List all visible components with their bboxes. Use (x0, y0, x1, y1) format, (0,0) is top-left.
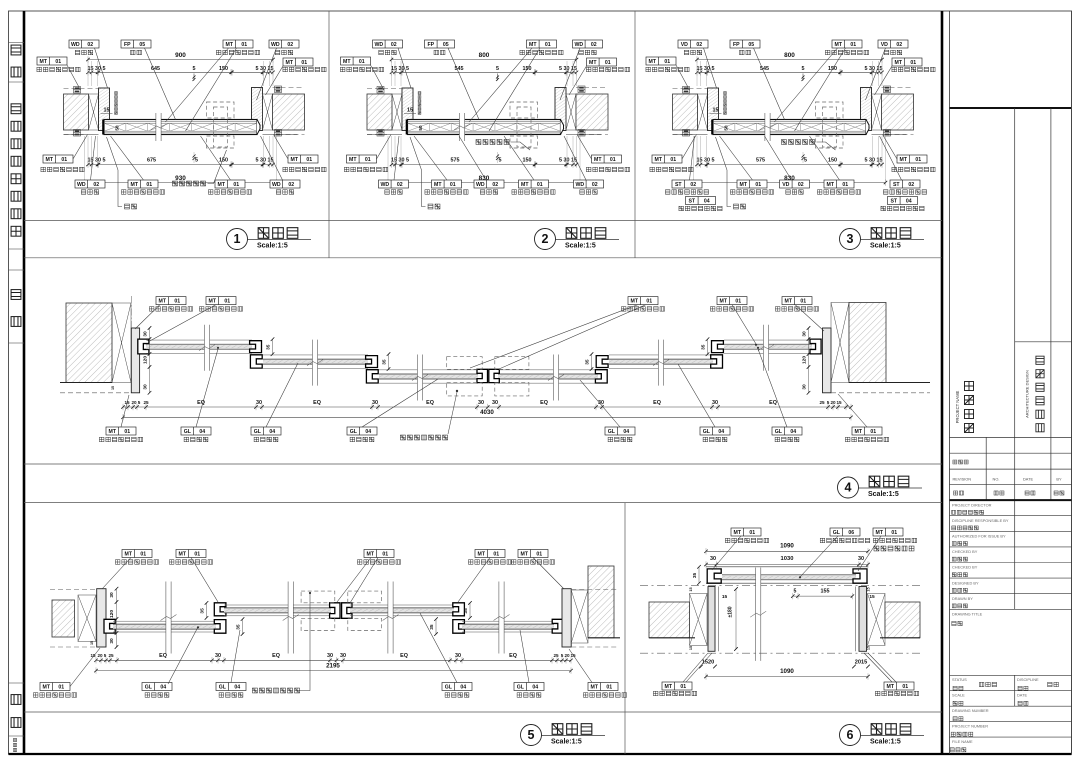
detail 3 wall edge dashed stubs (673, 88, 708, 90)
svg-text:35: 35 (692, 573, 698, 579)
svg-text:MT: MT (131, 182, 139, 188)
svg-text:120: 120 (143, 356, 149, 364)
svg-text:3: 3 (847, 232, 854, 246)
svg-text:155: 155 (821, 588, 830, 594)
svg-text:SCALE: SCALE (952, 693, 965, 698)
detail 2 door leaf hinge-side end cap (561, 120, 564, 135)
detail bubble 2 门大样 (535, 229, 556, 250)
detail 6 right wall blocking xbox (868, 594, 886, 646)
svg-text:15: 15 (90, 653, 96, 658)
detail 1 tag 古铜拉丝玫瑰金 lower-right (288, 155, 318, 163)
detail 1 door leaf hinge-side end cap (257, 120, 260, 135)
detail 4 right wall blocking xbox (831, 303, 849, 383)
svg-text:DISCIPLINE: DISCIPLINE (1017, 677, 1039, 682)
drawing frame bottom edge (9, 753, 1072, 755)
detail 4 step dims 35 (272, 339, 274, 354)
detail 4 jamb vertical dim 30 120 30 left (149, 328, 151, 393)
detail 1 tag 古铜拉丝玫瑰金 top (223, 40, 253, 48)
left strip label 合同号 (13, 738, 16, 751)
detail 2 tag row bottom 木饰面 left (379, 180, 409, 188)
svg-text:20: 20 (131, 400, 137, 405)
detail 3 right wall hatch (882, 94, 914, 130)
detail 1 right wall blocking xbox (263, 94, 273, 130)
svg-text:02: 02 (287, 42, 293, 48)
svg-text:15 30 5: 15 30 5 (391, 158, 409, 164)
detail 4 jamb vertical dim 30 120 30 right (808, 328, 810, 393)
svg-text:25: 25 (553, 653, 559, 658)
svg-text:MT: MT (343, 59, 351, 65)
svg-text:30: 30 (109, 638, 115, 644)
detail 2 left wall hatch (367, 94, 392, 130)
svg-text:DRAWN BY: DRAWN BY (952, 596, 973, 601)
detail 5 right jamb post (562, 589, 571, 647)
detail 1 tag 古铜拉丝玫瑰金 upper-right (283, 58, 313, 66)
svg-text:MT: MT (46, 157, 54, 163)
detail 6 center break mark (750, 568, 766, 661)
svg-text:545: 545 (455, 66, 464, 72)
detail 3 tag 古铜拉丝玫瑰金 top (832, 40, 862, 48)
svg-text:REVISION: REVISION (953, 477, 972, 482)
detail 1 dimension extension lines (85, 61, 277, 181)
detail 4 tag 特殊玻璃 bottom 1 (181, 427, 211, 435)
svg-text:GL: GL (219, 685, 227, 691)
detail 2 door leaf break mark (454, 113, 470, 141)
detail 3 tag row bottom 古铜拉丝玫瑰金 mid-left (737, 180, 767, 188)
svg-text:30: 30 (858, 556, 864, 562)
svg-text:01: 01 (493, 552, 499, 558)
svg-text:02: 02 (908, 182, 914, 188)
svg-text:NO.: NO. (993, 477, 1000, 482)
svg-text:MT: MT (179, 552, 187, 558)
svg-text:04: 04 (704, 199, 710, 205)
svg-text:WD: WD (476, 182, 485, 188)
detail 4 tag 古铜拉丝玫瑰金 top center (628, 297, 658, 305)
svg-text:575: 575 (451, 158, 460, 164)
svg-text:04: 04 (460, 685, 466, 691)
svg-text:25: 25 (108, 653, 114, 658)
svg-text:MT: MT (594, 157, 602, 163)
detail 4 tag 特殊玻璃 bottom 4 (605, 427, 635, 435)
detail 5 center handle clamps (330, 603, 340, 619)
drawing frame heavy left edge (23, 11, 26, 754)
detail 2 tag 古铜拉丝玫瑰金 top (527, 40, 557, 48)
detail 5 glass panel 1 (113, 621, 216, 632)
detail 2 left jamb (402, 88, 413, 131)
svg-text:01: 01 (306, 157, 312, 163)
svg-text:MT: MT (286, 60, 294, 66)
svg-text:WD: WD (574, 42, 583, 48)
detail 2 handle dashed outline (510, 102, 538, 118)
band divider lines middle row (24, 463, 942, 465)
svg-text:GL: GL (775, 429, 783, 435)
svg-text:MT: MT (218, 182, 226, 188)
detail 3 left wall hatch (673, 94, 698, 130)
band divider lines top row (24, 219, 942, 221)
svg-text:WD: WD (272, 182, 281, 188)
svg-text:02: 02 (798, 182, 804, 188)
svg-text:30: 30 (372, 400, 378, 406)
detail 2 tag 古铜拉丝玫瑰金 lower-left (347, 155, 377, 163)
detail 1 wall edge dashed stubs (64, 88, 99, 90)
svg-text:30: 30 (109, 592, 115, 598)
svg-text:30: 30 (802, 331, 808, 337)
svg-text:MT: MT (900, 157, 908, 163)
svg-text:02: 02 (492, 182, 498, 188)
detail 4 glass panel 2 (263, 355, 368, 368)
detail 2 tag row bottom right (574, 180, 604, 188)
svg-text:MT: MT (895, 60, 903, 66)
svg-text:02: 02 (93, 182, 99, 188)
detail bubble 4 门大样 (838, 477, 859, 498)
svg-text:01: 01 (359, 59, 365, 65)
detail 2 tag 古铜拉丝玫瑰金 lower-right (592, 155, 622, 163)
detail 4 tag 古铜拉丝玫瑰金 top 1 (156, 297, 186, 305)
svg-text:ST: ST (688, 199, 695, 205)
svg-text:01: 01 (749, 530, 755, 536)
detail 4 tag 古铜拉丝玫瑰金 top right (782, 297, 812, 305)
detail 6 transom right c-clamp (853, 569, 867, 583)
detail 4 tag 特殊玻璃 bottom 5 (700, 427, 730, 435)
svg-text:01: 01 (670, 157, 676, 163)
svg-text:MT: MT (589, 60, 597, 66)
detail 3 note 成品门把手 (782, 140, 815, 145)
detail 4 centerline dash-dot (130, 296, 132, 330)
svg-text:FP: FP (124, 42, 131, 48)
title block architecture design box line (1015, 341, 1072, 343)
detail 6 floor dashed line (640, 652, 920, 654)
detail 3 left jamb (708, 88, 719, 131)
svg-text:VD: VD (881, 42, 888, 48)
svg-text:04: 04 (234, 685, 240, 691)
detail 1 handle dashed outline (207, 102, 235, 118)
svg-text:CHECKED BY: CHECKED BY (952, 549, 978, 554)
svg-text:35: 35 (200, 608, 206, 614)
svg-text:5: 5 (802, 66, 805, 72)
detail 3 tag 古铜拉丝玫瑰金 upper-right (892, 58, 922, 66)
svg-text:15: 15 (869, 594, 875, 600)
svg-text:02: 02 (591, 42, 597, 48)
svg-text:MT: MT (367, 552, 375, 558)
svg-text:5: 5 (138, 400, 141, 405)
svg-text:04: 04 (160, 685, 166, 691)
detail 2 tag row bottom 古铜拉丝玫瑰金 mid-right (519, 180, 549, 188)
svg-text:01: 01 (910, 60, 916, 66)
svg-text:01: 01 (61, 157, 67, 163)
detail 5 tag 古铜拉丝玫瑰金 top 2 (176, 550, 206, 558)
svg-text:DATE: DATE (1023, 477, 1033, 482)
detail bubble 3 门大样 (840, 229, 861, 250)
detail 3 tag 安曼玫瑰大理石 right (888, 197, 918, 205)
detail 3 tag 古铜拉丝玫瑰金 lower-right (897, 155, 927, 163)
svg-text:15 30 5: 15 30 5 (88, 158, 106, 164)
detail 1 tag 古铜拉丝玫瑰金 lower-left (43, 155, 73, 163)
svg-text:MT: MT (887, 684, 895, 690)
detail 4 glass panel 5 (609, 355, 713, 368)
detail 3 door core x-bracing (713, 123, 866, 131)
detail 5 jamb vertical dim 30 120 30 (116, 589, 118, 647)
svg-text:EQ: EQ (426, 400, 434, 406)
svg-text:01: 01 (55, 59, 61, 65)
detail 3 tag row bottom 木饰面 middle (780, 180, 810, 188)
svg-text:01: 01 (537, 182, 543, 188)
svg-text:02: 02 (696, 42, 702, 48)
detail 3 tag 皮革 top (730, 40, 760, 48)
svg-text:GL: GL (517, 685, 525, 691)
svg-text:MT: MT (40, 59, 48, 65)
svg-text:EQ: EQ (769, 400, 777, 406)
svg-text:30: 30 (492, 400, 498, 406)
svg-text:01: 01 (450, 182, 456, 188)
svg-text:GL: GL (445, 685, 453, 691)
title block heavy divider y=108 (950, 107, 1072, 109)
svg-text:MT: MT (349, 157, 357, 163)
detail 4 break marks (199, 325, 215, 371)
svg-text:GL: GL (254, 429, 262, 435)
svg-text:WD: WD (77, 182, 86, 188)
detail 4 tag 古铜拉丝玫瑰金 top 4 (717, 297, 747, 305)
svg-text:02: 02 (896, 42, 902, 48)
top row panel divider x=329 (328, 11, 330, 258)
detail 3 handle dashed outline (816, 102, 844, 118)
svg-text:15: 15 (713, 108, 719, 114)
detail 1 tag 皮革 top (121, 40, 151, 48)
svg-text:5 30 15: 5 30 15 (559, 158, 577, 164)
svg-text:1090: 1090 (780, 543, 794, 550)
svg-text:01: 01 (902, 684, 908, 690)
svg-text:04: 04 (790, 429, 796, 435)
svg-text:04: 04 (718, 429, 724, 435)
svg-text:EQ: EQ (197, 400, 205, 406)
svg-text:15: 15 (867, 646, 871, 650)
detail 6 dim 35 left of transom (698, 567, 700, 583)
svg-text:01: 01 (606, 685, 612, 691)
svg-text:WD: WD (271, 42, 280, 48)
svg-text:DATE: DATE (1017, 693, 1027, 698)
svg-text:30: 30 (256, 400, 262, 406)
svg-text:15: 15 (104, 108, 110, 114)
detail 2 tag 古铜拉丝玫瑰金 upper-right (587, 58, 617, 66)
svg-text:GL: GL (350, 429, 358, 435)
title block drawing number row (950, 721, 1072, 723)
svg-text:5: 5 (104, 653, 107, 658)
detail 2 left wall blocking xbox (392, 94, 402, 130)
svg-text:PROJECT DIRECTOR: PROJECT DIRECTOR (952, 502, 992, 507)
svg-text:30: 30 (712, 400, 718, 406)
detail 3 door leaf (713, 120, 866, 135)
svg-text:01: 01 (382, 552, 388, 558)
svg-text:5: 5 (827, 400, 830, 405)
svg-text:1030: 1030 (781, 556, 794, 562)
detail 5 left jamb post (97, 589, 106, 647)
title block column lines (1014, 108, 1016, 609)
detail 6 right jamb elevation (859, 587, 867, 652)
detail 3 jamb vertical note 门扇规格尺寸 (724, 92, 727, 115)
svg-text:VD: VD (782, 182, 789, 188)
svg-text:MT: MT (720, 299, 728, 305)
left strip label 弱电 (11, 290, 21, 327)
detail 1 tag row bottom 古铜拉丝玫瑰金 mid-left (128, 180, 158, 188)
svg-text:5: 5 (804, 158, 807, 164)
svg-text:05: 05 (139, 42, 145, 48)
detail 2 note 成品门把手 (476, 140, 509, 145)
svg-text:CHECKED BY: CHECKED BY (952, 565, 978, 570)
svg-text:WD: WD (575, 182, 584, 188)
svg-text:01: 01 (140, 552, 146, 558)
svg-text:4: 4 (845, 481, 852, 495)
svg-text:MT: MT (209, 299, 217, 305)
svg-text:MT: MT (521, 552, 529, 558)
detail 2 tag 皮革 top (425, 40, 455, 48)
svg-text:35: 35 (585, 359, 591, 365)
detail 3 dimension extension lines (694, 61, 886, 181)
svg-text:6: 6 (847, 728, 854, 742)
svg-text:01: 01 (646, 299, 652, 305)
detail 6 tag 古铜拉丝玫瑰金 bottom left (662, 682, 692, 690)
svg-text:575: 575 (756, 158, 765, 164)
svg-text:ST: ST (675, 182, 682, 188)
svg-text:01: 01 (850, 42, 856, 48)
detail 5 tall break marks (161, 582, 177, 654)
svg-text:Scale:1:5: Scale:1:5 (551, 739, 582, 746)
title block revision texts (953, 460, 968, 464)
detail bubble 5 门大样 (521, 725, 542, 746)
detail 5 tag 特殊玻璃 bottom 2 (216, 683, 246, 691)
svg-text:04: 04 (269, 429, 275, 435)
svg-text:MT: MT (434, 182, 442, 188)
detail 1 jamb micro dims (74, 87, 81, 94)
detail 1 tag 古铜拉丝玫瑰金 upper-left (37, 57, 67, 65)
svg-text:AUTHORIZED FOR ISSUE BY: AUTHORIZED FOR ISSUE BY (952, 534, 1006, 539)
svg-text:01: 01 (605, 60, 611, 66)
svg-text:DESIGNED BY: DESIGNED BY (952, 580, 979, 585)
svg-text:MT: MT (591, 685, 599, 691)
detail 4 tag 特殊玻璃 bottom 6 (772, 427, 802, 435)
svg-text:01: 01 (58, 685, 64, 691)
detail 2 tag 木饰面 top-right (573, 40, 603, 48)
svg-text:MT: MT (855, 429, 863, 435)
svg-text:06: 06 (848, 530, 854, 536)
svg-text:01: 01 (536, 552, 542, 558)
detail 2 jamb vertical note 门扇规格尺寸 (418, 92, 421, 115)
svg-text:01: 01 (610, 157, 616, 163)
svg-text:ST: ST (890, 199, 897, 205)
detail 1 door leaf (104, 120, 257, 135)
svg-text:01: 01 (664, 59, 670, 65)
svg-text:01: 01 (233, 182, 239, 188)
detail 5 tag 古铜拉丝玫瑰金 top 5 (518, 550, 548, 558)
svg-text:01: 01 (800, 299, 806, 305)
svg-text:Scale:1:5: Scale:1:5 (565, 243, 596, 250)
detail 3 tag row bottom right (890, 180, 920, 188)
detail 5 tag 古铜拉丝玫瑰金 top 4 (475, 550, 505, 558)
svg-text:EQ: EQ (653, 400, 661, 406)
svg-text:01: 01 (545, 42, 551, 48)
svg-text:MT: MT (655, 157, 663, 163)
detail 6 left jamb elevation (708, 587, 715, 652)
detail 6 ceiling dashed line (640, 585, 920, 587)
detail 5 tag 古铜拉丝玫瑰金 top 1 (122, 550, 152, 558)
detail 2 dimension extension lines (388, 61, 580, 181)
svg-text:2015: 2015 (855, 660, 867, 666)
detail 2 jamb micro dims (377, 87, 384, 94)
svg-text:15: 15 (111, 386, 115, 390)
svg-text:15: 15 (407, 108, 413, 114)
detail 2 note 合页 (428, 204, 440, 209)
svg-text:EQ: EQ (509, 653, 517, 659)
svg-text:01: 01 (842, 182, 848, 188)
svg-text:20: 20 (564, 653, 570, 658)
svg-text:GL: GL (703, 429, 711, 435)
left strip tick marks (9, 42, 25, 44)
svg-text:EQ: EQ (540, 400, 548, 406)
detail 1 door core x-bracing (104, 123, 257, 131)
detail 4 right jamb c-channel (810, 339, 821, 354)
detail 5 joint clamps at x=220 (214, 603, 226, 616)
svg-text:15: 15 (867, 587, 871, 591)
svg-text:35: 35 (463, 608, 469, 614)
detail 6 tag 古铜拉丝玫瑰金 bottom right (884, 682, 914, 690)
svg-text:MT: MT (43, 685, 51, 691)
svg-text:35: 35 (236, 624, 242, 630)
svg-text:800: 800 (784, 52, 795, 59)
title block revision table (950, 436, 1072, 438)
svg-text:50: 50 (418, 125, 423, 131)
svg-text:01: 01 (735, 299, 741, 305)
svg-text:Scale:1:5: Scale:1:5 (870, 243, 901, 250)
title block scale row (950, 705, 1072, 707)
detail 6 tag 古铜拉丝玫瑰金 top left (731, 528, 761, 536)
svg-text:ARCHITECTURE DESIGN: ARCHITECTURE DESIGN (1025, 370, 1030, 418)
svg-text:EQ: EQ (272, 653, 280, 659)
svg-text:ST: ST (893, 182, 900, 188)
svg-text:MT: MT (785, 299, 793, 305)
svg-text:MT: MT (740, 182, 748, 188)
svg-text:25: 25 (143, 400, 149, 405)
detail 3 door leaf hinge-side end cap (866, 120, 869, 135)
detail 3 tag 古铜拉丝玫瑰金 upper-left (646, 57, 676, 65)
svg-text:01: 01 (194, 552, 200, 558)
svg-text:GL: GL (145, 685, 153, 691)
svg-text:30: 30 (143, 331, 149, 337)
svg-text:30: 30 (478, 400, 484, 406)
svg-text:25: 25 (819, 400, 825, 405)
svg-text:5 30 15: 5 30 15 (256, 158, 274, 164)
detail 3 right wall blocking xbox (872, 94, 882, 130)
detail 6 left wall hatch (649, 602, 690, 638)
svg-text:15 30 5: 15 30 5 (88, 66, 106, 72)
detail 4 joint clamp pair at x=256 (250, 341, 262, 353)
detail 5 jamb dashed stubs (50, 589, 96, 591)
svg-text:5: 5 (561, 653, 564, 658)
svg-text:01: 01 (301, 60, 307, 66)
detail 1 right jamb (252, 88, 263, 131)
svg-text:01: 01 (146, 182, 152, 188)
detail 2 right jamb (555, 88, 566, 131)
svg-text:MT: MT (876, 530, 884, 536)
detail bubble 6 门大样 (840, 725, 861, 746)
svg-text:PROJECT NUMBER: PROJECT NUMBER (952, 724, 988, 729)
svg-text:MT: MT (631, 299, 639, 305)
svg-text:35: 35 (701, 344, 707, 350)
svg-text:15: 15 (722, 594, 728, 600)
title block status row (950, 674, 1072, 676)
svg-text:02: 02 (288, 182, 294, 188)
detail 5 note 成品定制门把手 (252, 688, 299, 693)
detail 3 left wall blocking xbox (698, 94, 708, 130)
detail 5 right wall hatch (588, 566, 614, 638)
svg-text:150: 150 (523, 158, 532, 164)
detail 1 right wall hatch (273, 94, 305, 130)
